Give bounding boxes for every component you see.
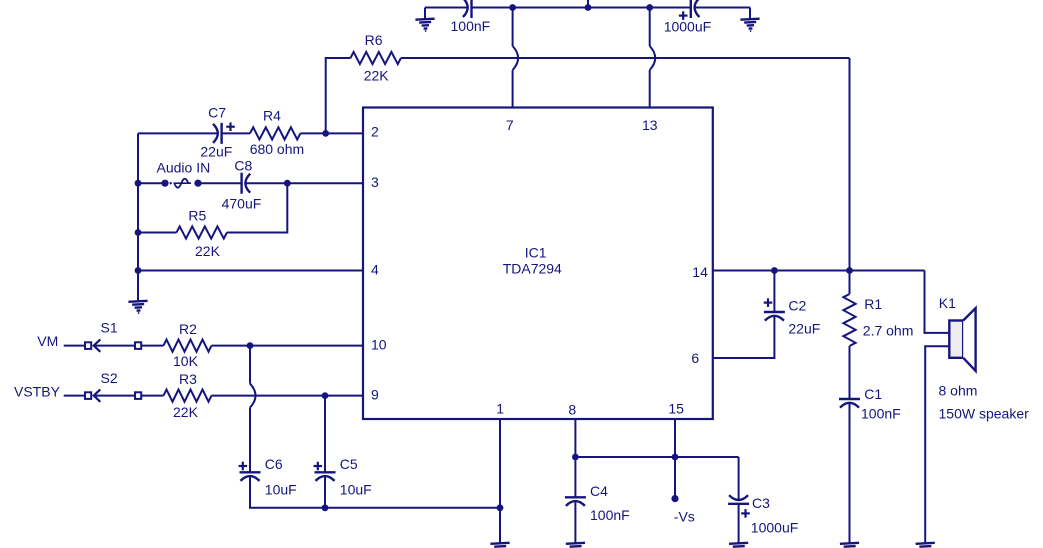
wire pin 1 vertical [499, 419, 501, 543]
svg-text:8 ohm: 8 ohm [939, 383, 978, 399]
svg-text:S2: S2 [101, 370, 118, 386]
capacitor C8 [242, 173, 251, 194]
svg-text:10K: 10K [173, 353, 199, 369]
junction pin1 / bus [497, 504, 504, 511]
resistor R1 [843, 294, 855, 346]
wire C5 branch vertical [324, 396, 326, 473]
svg-text:6: 6 [691, 350, 699, 366]
svg-text:IC1: IC1 [525, 245, 547, 261]
svg-text:10: 10 [371, 336, 387, 352]
wire speaker top terminal [925, 271, 950, 333]
capacitor C4 [565, 497, 586, 506]
svg-text:C3: C3 [752, 495, 770, 511]
wire pin 13 vertical from top rail [649, 8, 651, 47]
wire hop C6 branch over R3 wire [250, 384, 256, 408]
svg-text:14: 14 [692, 264, 708, 280]
node -Vs stub [674, 457, 676, 497]
wire C6 branch vertical [249, 346, 251, 384]
capacitor C1 [839, 399, 860, 408]
svg-text:C1: C1 [864, 386, 882, 402]
svg-text:680 ohm: 680 ohm [250, 141, 304, 157]
wire hop pin7 over R6 wire [513, 46, 519, 70]
wire rail ground stub [137, 271, 139, 302]
junction rail / pin4 [135, 267, 142, 274]
svg-text:C8: C8 [234, 157, 252, 173]
node +supply stub [587, 0, 589, 8]
svg-text:10uF: 10uF [265, 482, 297, 498]
ground (C4) [566, 543, 586, 548]
svg-text:22K: 22K [173, 404, 199, 420]
svg-text:C6: C6 [265, 456, 283, 472]
wire left rail vertical [137, 133, 139, 270]
capacitor C7 [213, 123, 222, 144]
junction top rail / pin7 branch [509, 4, 516, 11]
ground (input rail) [128, 301, 148, 315]
resistor R3 [164, 390, 212, 402]
wire VM lead [64, 345, 84, 347]
wire top-left ground stub [424, 8, 426, 20]
source audio sine symbol [174, 182, 192, 184]
junction pin10 node / C6 [247, 342, 254, 349]
wire output column vertical [849, 58, 851, 271]
wire S2 to R3 [142, 395, 164, 397]
svg-text:100nF: 100nF [861, 406, 901, 422]
wire R1 to C1 [849, 346, 851, 399]
svg-text:100nF: 100nF [451, 18, 491, 34]
wire top-right ground stub [749, 8, 751, 20]
svg-text:1000uF: 1000uF [664, 19, 711, 35]
capacitor C2 [764, 312, 785, 321]
junction pin15 / bus [672, 454, 679, 461]
wire R5 row from rail [138, 232, 177, 234]
junction pin9 node / C5 [322, 392, 329, 399]
svg-text:C5: C5 [340, 456, 358, 472]
junction pin14 / C2 [771, 267, 778, 274]
svg-text:VM: VM [37, 333, 58, 349]
capacitor C5 [315, 472, 336, 481]
junction pin3 node / R5 [284, 180, 291, 187]
wire C2 branch top [773, 271, 775, 313]
node audio-in connector dot left [161, 180, 168, 187]
wire S1 to R2 [142, 345, 164, 347]
wire R2 to pin 10 [212, 345, 364, 347]
ground (top right) [740, 19, 760, 33]
svg-text:S1: S1 [101, 320, 118, 336]
svg-text:470uF: 470uF [222, 195, 262, 211]
node audio-in tiny dot [170, 182, 172, 184]
wire pin 7 vertical from top rail [512, 8, 514, 47]
junction rail / R5 [135, 229, 142, 236]
svg-text:9: 9 [371, 386, 379, 402]
wire hop pin13 over R6 wire [650, 46, 656, 70]
junction C5 / bus [322, 504, 329, 511]
wire R5 right and up to pin3 node [227, 183, 287, 232]
svg-text:C7: C7 [208, 104, 226, 120]
resistor R6 [351, 52, 401, 64]
ground (top left) [415, 19, 435, 33]
wire VSTBY lead [64, 395, 84, 397]
junction pin8 / bus [572, 454, 579, 461]
svg-text:1000uF: 1000uF [751, 519, 798, 535]
wire pin2 row left [138, 132, 218, 134]
switch S1 [85, 339, 141, 351]
ground (speaker) [916, 543, 936, 548]
svg-text:R2: R2 [179, 321, 197, 337]
op-amp IC1 TDA7294 body [363, 108, 713, 420]
svg-text:R6: R6 [365, 32, 383, 48]
capacitor 1000uF top [691, 0, 700, 18]
svg-text:22K: 22K [195, 243, 221, 259]
svg-text:10uF: 10uF [340, 482, 372, 498]
svg-text:-Vs: -Vs [674, 509, 695, 525]
capacitor C6 [240, 472, 261, 481]
wire R1 branch [849, 271, 851, 295]
ground (C3) [729, 543, 749, 548]
svg-text:K1: K1 [939, 295, 956, 311]
svg-text:22uF: 22uF [200, 144, 232, 160]
wire speaker bottom terminal to ground [925, 346, 949, 543]
svg-text:R1: R1 [864, 296, 882, 312]
wire top rail middle segment [472, 7, 691, 9]
junction top rail / pin13 branch [646, 4, 653, 11]
wire pin 15 vertical [674, 419, 676, 457]
wire R3 to pin 9 [212, 395, 364, 397]
svg-text:R3: R3 [179, 371, 197, 387]
wire C3 to ground [738, 504, 740, 543]
svg-text:13: 13 [642, 117, 658, 133]
wire bottom bus [575, 456, 738, 458]
svg-text:1: 1 [496, 400, 504, 416]
wire C4 to ground [574, 501, 576, 543]
wire pin 14 row [713, 270, 925, 272]
svg-text:7: 7 [506, 117, 514, 133]
svg-text:4: 4 [371, 261, 379, 277]
junction pin2 node / R6 [322, 130, 329, 137]
junction top rail center [585, 4, 592, 11]
junction pin14 / R1 [846, 267, 853, 274]
wire bus corner down to C3 [738, 457, 740, 500]
capacitor C3 [728, 495, 749, 504]
svg-text:2.7 ohm: 2.7 ohm [863, 322, 914, 338]
capacitor 100nF top [463, 0, 472, 18]
wire C2 bottom to pin 6 [713, 316, 775, 358]
wire C7 to R4 [222, 132, 250, 134]
svg-text:R4: R4 [263, 107, 281, 123]
resistor R2 [164, 340, 212, 352]
wire C1 to ground [849, 403, 851, 543]
wire R6 right to output column [401, 57, 850, 59]
svg-text:C4: C4 [590, 483, 608, 499]
junction rail / audio [135, 180, 142, 187]
wire C6 to ground bus [250, 476, 500, 508]
wire top rail right segment [695, 7, 750, 9]
speaker K1 [949, 308, 975, 371]
svg-text:VSTBY: VSTBY [14, 384, 61, 400]
ground (R1/C1) [840, 543, 860, 548]
wire R6 left to pin2 node [326, 58, 351, 133]
svg-text:3: 3 [371, 174, 379, 190]
svg-text:2: 2 [371, 124, 379, 140]
svg-text:22K: 22K [364, 68, 390, 84]
resistor R5 [177, 226, 227, 238]
wire audio row from rail [138, 182, 162, 184]
node audio-in connector dot right [194, 180, 201, 187]
switch S2 [85, 389, 141, 401]
svg-text:150W speaker: 150W speaker [939, 406, 1030, 422]
svg-text:TDA7294: TDA7294 [503, 260, 562, 276]
wire R4 to pin 2 [300, 132, 363, 134]
svg-text:C2: C2 [788, 298, 806, 314]
svg-text:22uF: 22uF [788, 321, 820, 337]
resistor R4 [250, 127, 300, 139]
wire pin 4 row [138, 270, 363, 272]
wire top supply rail left segment [425, 7, 468, 9]
wire audio to C8 [202, 182, 242, 184]
wire C8 to pin 3 [245, 182, 363, 184]
svg-text:Audio IN: Audio IN [157, 159, 211, 175]
svg-text:100nF: 100nF [590, 507, 630, 523]
svg-text:15: 15 [668, 401, 684, 417]
svg-text:8: 8 [568, 402, 576, 418]
svg-text:R5: R5 [188, 208, 206, 224]
wire pin 8 vertical [574, 419, 576, 497]
ground (pin1) [490, 543, 510, 548]
wire C5 to bus [324, 476, 326, 508]
